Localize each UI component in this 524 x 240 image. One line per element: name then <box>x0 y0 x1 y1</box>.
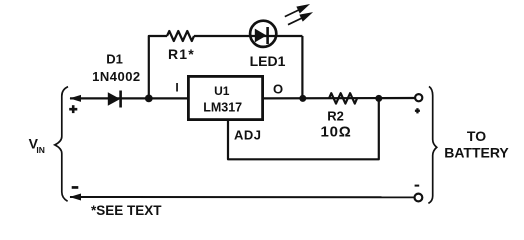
wire: riser from node A up to R1 <box>149 36 167 98</box>
svg-text:TO: TO <box>467 128 486 144</box>
wire: U1 output to + terminal <box>263 97 415 100</box>
svg-text:BATTERY: BATTERY <box>444 145 509 161</box>
LED1 light-emission arrows <box>285 5 311 24</box>
svg-text:IN: IN <box>36 145 45 155</box>
arrowhead V_IN+ (points left) <box>70 95 82 102</box>
node A: junction D1 / R1 riser / U1 input <box>145 95 153 103</box>
svg-text:1N4002: 1N4002 <box>92 69 141 84</box>
op-amp? no: regulator IC U1 LM317 box <box>188 76 262 119</box>
LED D LED1 <box>250 21 276 47</box>
plus mark V_IN+ <box>69 105 77 113</box>
svg-text:LED1: LED1 <box>250 53 286 69</box>
brace for TO BATTERY <box>428 86 436 203</box>
label TO BATTERY <box>444 128 509 161</box>
wire: V_IN+ input rail to U1 pin I <box>70 97 188 99</box>
node B: junction LED riser / output rail <box>299 95 306 102</box>
terminal circle: battery + <box>415 94 422 101</box>
resistor R2 <box>329 93 357 103</box>
svg-text:R2: R2 <box>327 109 344 124</box>
svg-text:I: I <box>175 81 178 95</box>
node C: junction R2 / ADJ feedback / + terminal rail <box>375 95 382 102</box>
svg-text:*SEE TEXT: *SEE TEXT <box>91 203 162 218</box>
wire: R1 to LED1 to right riser <box>194 35 302 37</box>
svg-text:ADJ: ADJ <box>234 128 262 143</box>
plus mark battery + <box>415 108 420 113</box>
svg-text:D1: D1 <box>106 52 123 67</box>
wire: ADJ pin feedback (U1 bottom, down, right, up to node C) <box>228 98 379 159</box>
wire: bottom return rail V_IN- to battery - <box>70 196 414 198</box>
terminal circle: battery - <box>415 194 423 202</box>
label V_IN <box>29 135 45 155</box>
diode D1 <box>108 91 121 108</box>
wire: riser from LED1 down to output node B <box>301 36 303 98</box>
svg-text:R1*: R1* <box>168 46 195 62</box>
minus mark battery - <box>415 185 420 187</box>
arrowhead V_IN- (points left) <box>70 194 82 201</box>
minus mark V_IN- <box>72 186 79 189</box>
svg-text:U1: U1 <box>214 84 230 98</box>
svg-text:LM317: LM317 <box>203 100 242 114</box>
svg-text:O: O <box>273 81 283 96</box>
resistor R1 <box>167 31 194 41</box>
svg-text:10Ω: 10Ω <box>320 124 351 141</box>
brace for V_IN <box>55 87 68 202</box>
